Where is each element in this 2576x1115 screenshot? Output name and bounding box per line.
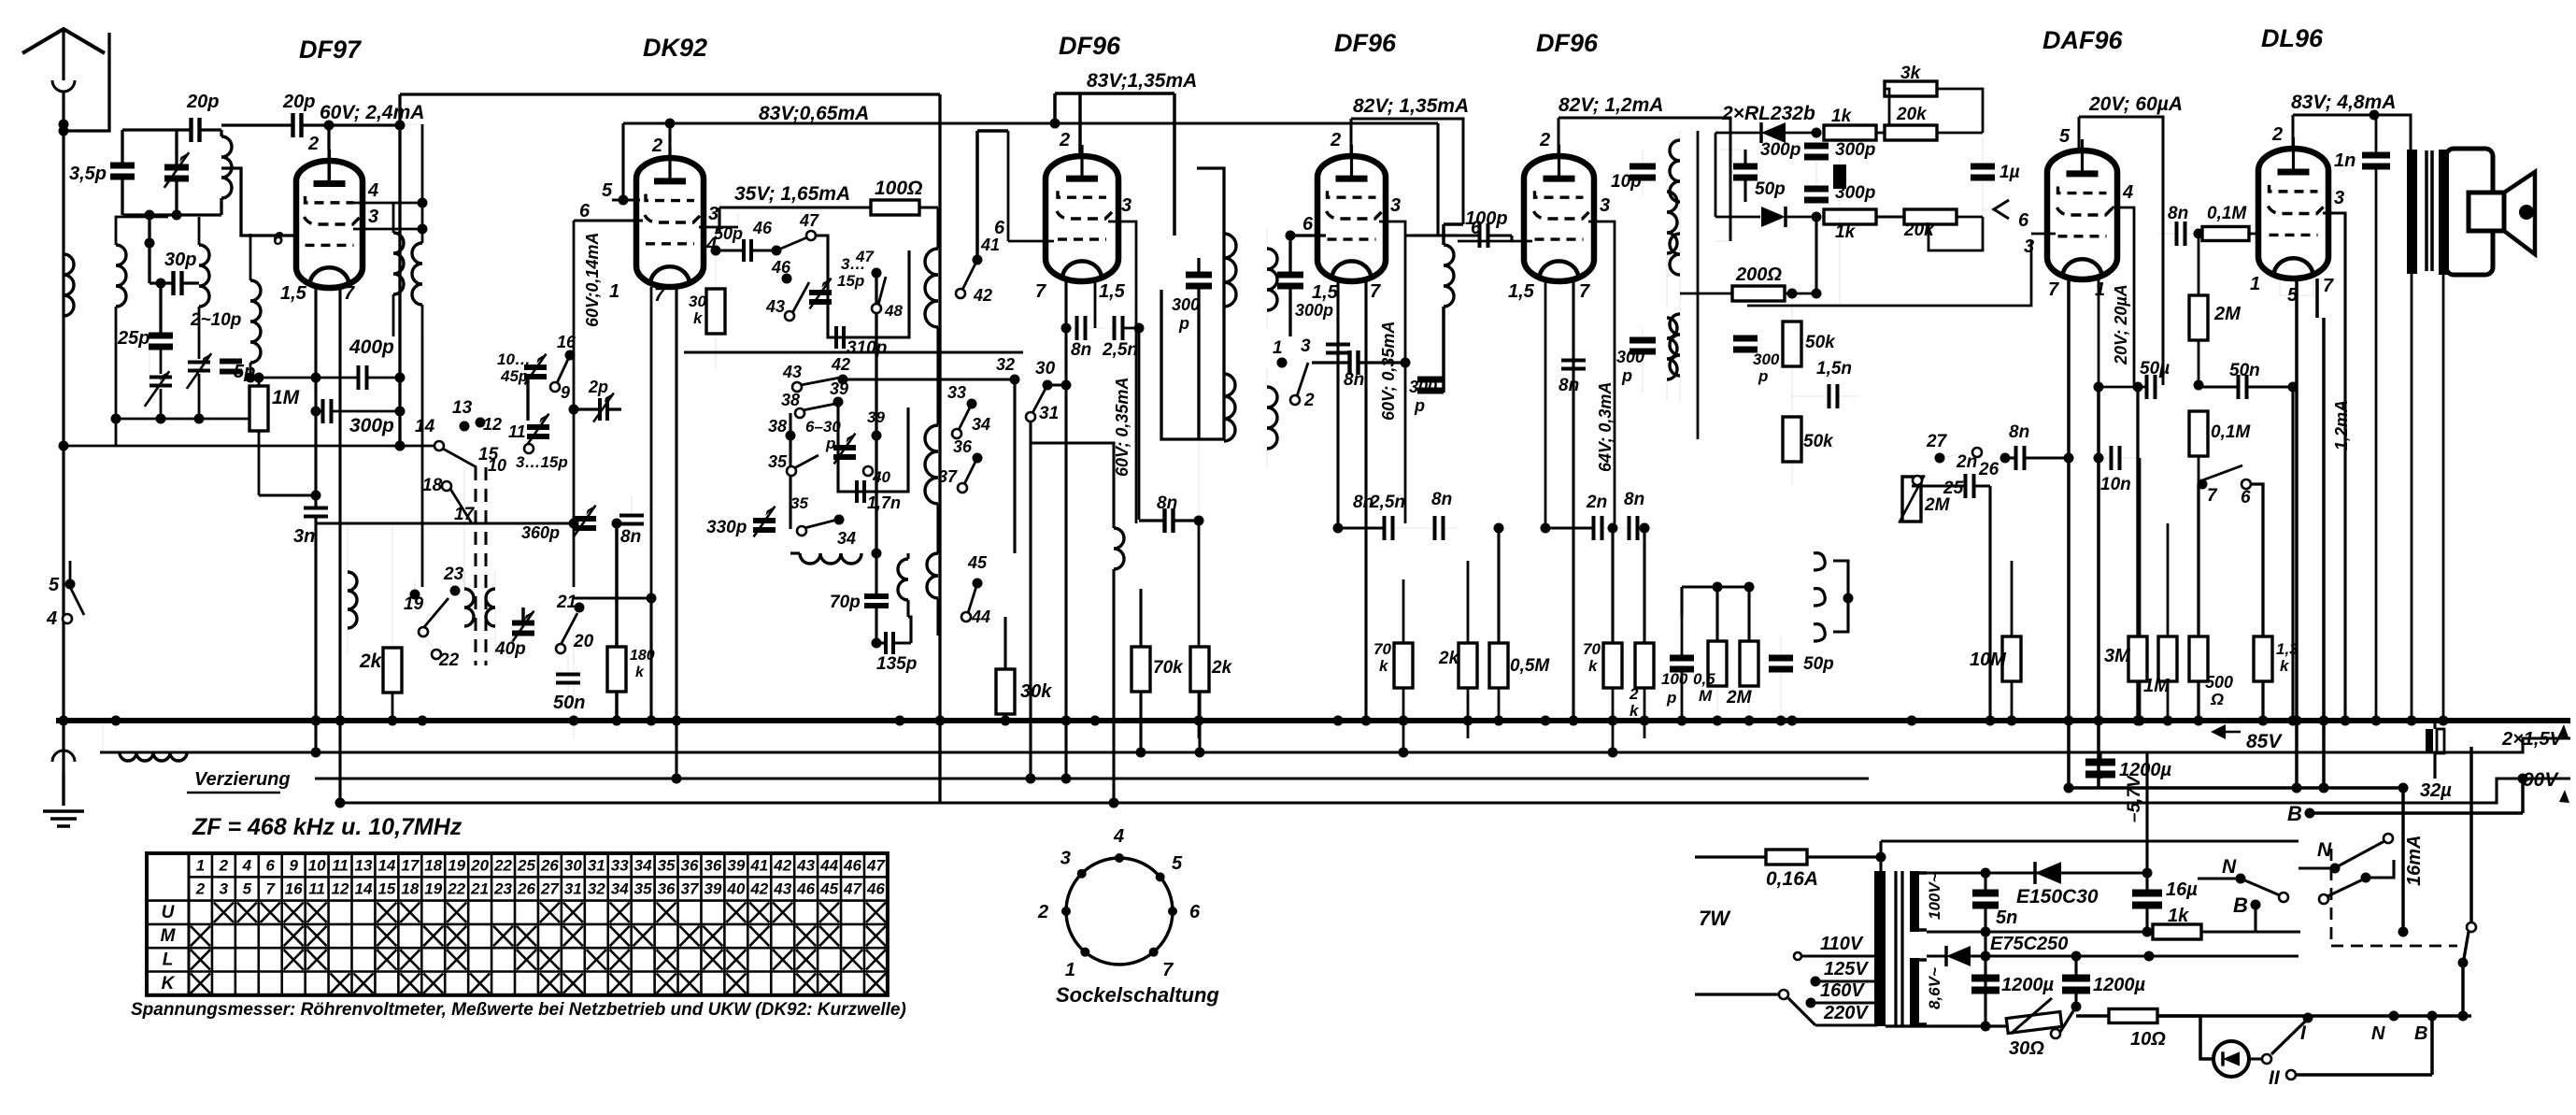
- potentiometer 2M: [1902, 477, 1921, 522]
- wire 1604 top: [1497, 528, 1500, 643]
- svg-text:2n: 2n: [1956, 452, 1977, 472]
- svg-text:20V; 20µA: 20V; 20µA: [2112, 284, 2130, 365]
- svg-text:Spannungsmesser: Röhrenvoltmet: Spannungsmesser: Röhrenvoltmeter, Meßwer…: [131, 1000, 906, 1020]
- bus 2: [102, 721, 104, 752]
- svg-text:36: 36: [704, 856, 721, 874]
- coil L2: [393, 233, 404, 294]
- det out arrow: [1928, 217, 1983, 250]
- capacitor 5n ps: [1972, 890, 1999, 897]
- grid wire 5p: [249, 366, 251, 378]
- diode E150C30: [2035, 862, 2061, 884]
- svg-text:22: 22: [447, 880, 465, 898]
- speaker magnet: [2469, 193, 2504, 231]
- det coil 3: [1670, 314, 1680, 376]
- svg-text:4: 4: [46, 608, 57, 629]
- svg-text:B: B: [2287, 802, 2302, 825]
- junction: [226, 124, 292, 130]
- det coil 1: [1670, 140, 1680, 202]
- resistor 70k b: [1394, 643, 1413, 688]
- svg-text:1200µ: 1200µ: [2001, 975, 2054, 995]
- svg-text:4: 4: [367, 180, 378, 201]
- svg-text:20V; 60µA: 20V; 60µA: [2088, 93, 2183, 115]
- wire sw47 to box: [815, 236, 828, 250]
- svg-text:4: 4: [1113, 826, 1124, 847]
- capacitor 1u: [1971, 164, 1995, 170]
- svg-text:36: 36: [658, 880, 676, 898]
- resistor 10ohm: [2075, 1007, 2077, 1016]
- svg-text:20k: 20k: [1896, 105, 1928, 124]
- svg-text:14: 14: [415, 417, 435, 436]
- svg-text:k: k: [693, 309, 704, 327]
- svg-text:17: 17: [401, 856, 420, 874]
- svg-text:0,5: 0,5: [1693, 670, 1715, 688]
- coil b out: [1444, 245, 1454, 307]
- svg-text:42: 42: [749, 880, 768, 898]
- svg-text:M: M: [1699, 687, 1713, 705]
- coil tank1: [221, 136, 232, 198]
- svg-text:41: 41: [749, 856, 768, 874]
- transformer core: [2425, 150, 2428, 271]
- svg-text:k: k: [1379, 657, 1389, 675]
- svg-text:12: 12: [483, 415, 502, 434]
- svg-text:2: 2: [2271, 124, 2283, 145]
- svg-text:33: 33: [611, 856, 629, 874]
- svg-text:6: 6: [994, 218, 1005, 238]
- svg-text:2M: 2M: [2213, 304, 2242, 324]
- coil ab3: [1267, 387, 1277, 449]
- capacitor 1200u a: [1971, 975, 2000, 982]
- svg-text:2k: 2k: [359, 650, 383, 672]
- svg-text:300p: 300p: [1835, 183, 1875, 203]
- svg-text:7: 7: [266, 880, 277, 898]
- svg-text:34: 34: [837, 529, 856, 548]
- svg-text:2: 2: [1539, 130, 1550, 150]
- resistor 50k b: [1783, 417, 1801, 462]
- resistor 2k a: [1190, 647, 1209, 692]
- svg-text:64V; 0,3mA: 64V; 0,3mA: [1596, 382, 1615, 472]
- feed DAF96: [2078, 117, 2081, 150]
- svg-text:500: 500: [2205, 673, 2233, 692]
- svg-text:12: 12: [332, 880, 349, 898]
- svg-text:k: k: [1588, 657, 1599, 675]
- capacitor 135p: [884, 632, 888, 654]
- svg-text:21: 21: [470, 880, 489, 898]
- svg-text:N: N: [2222, 856, 2237, 878]
- resistor 1M: [249, 386, 268, 431]
- svg-text:11: 11: [332, 856, 349, 874]
- svg-text:37: 37: [938, 467, 958, 486]
- svg-text:27: 27: [540, 880, 560, 898]
- svg-text:5: 5: [602, 180, 613, 201]
- svg-text:43: 43: [782, 363, 802, 381]
- svg-text:36: 36: [681, 856, 699, 874]
- svg-text:50n: 50n: [2229, 361, 2260, 380]
- svg-text:3: 3: [1600, 195, 1610, 216]
- svg-text:k: k: [635, 665, 645, 680]
- wire row 477: [64, 445, 439, 448]
- wire grid row DF96a: [1007, 131, 1009, 241]
- svg-text:4: 4: [2122, 182, 2133, 203]
- feed DL96: [2292, 115, 2295, 149]
- wire grid junction: [250, 377, 316, 379]
- wire 25p: [115, 383, 118, 419]
- svg-text:46: 46: [771, 258, 791, 277]
- svg-text:10n: 10n: [2100, 475, 2131, 494]
- resistor 2M dl: [2189, 295, 2208, 340]
- svg-text:15p: 15p: [837, 272, 864, 290]
- svg-text:330p: 330p: [706, 518, 747, 537]
- wire 2353 down: [2197, 484, 2199, 721]
- IF1 coil: [1224, 234, 1236, 307]
- svg-text:83V;0,65mA: 83V;0,65mA: [759, 103, 869, 124]
- svg-text:310p: 310p: [847, 338, 887, 358]
- svg-text:47: 47: [855, 248, 875, 265]
- svg-text:14: 14: [355, 880, 373, 898]
- svg-text:39: 39: [867, 408, 885, 426]
- svg-text:26: 26: [540, 856, 559, 874]
- svg-text:B: B: [2414, 1023, 2427, 1044]
- svg-text:E75C250: E75C250: [1990, 934, 2068, 954]
- svg-text:30: 30: [564, 856, 582, 874]
- svg-text:83V; 4,8mA: 83V; 4,8mA: [2291, 92, 2396, 113]
- svg-text:0,5M: 0,5M: [1510, 656, 1550, 676]
- wire right col: [2461, 965, 2465, 1016]
- coil L7: [348, 572, 357, 628]
- svg-text:7: 7: [1579, 281, 1590, 302]
- coil osc big mid: [925, 425, 938, 504]
- svg-text:6: 6: [266, 856, 276, 874]
- trimmer 6-30p: [833, 445, 856, 450]
- switch 7-6 dl: [2198, 479, 2208, 490]
- wire det af: [1839, 217, 1841, 306]
- coil L9: [486, 589, 495, 626]
- wire row 406: [792, 382, 802, 392]
- resistor 05M c: [1708, 641, 1727, 686]
- svg-text:35V; 1,65mA: 35V; 1,65mA: [734, 183, 850, 205]
- svg-text:8n: 8n: [1431, 490, 1452, 509]
- resistor 180k: [607, 647, 626, 692]
- svg-text:1,5: 1,5: [1508, 281, 1535, 302]
- svg-text:14: 14: [377, 856, 395, 874]
- svg-text:18: 18: [422, 476, 443, 495]
- svg-text:200Ω: 200Ω: [1735, 264, 1782, 285]
- svg-text:43: 43: [765, 297, 785, 316]
- wire top right corner: [1982, 89, 1984, 133]
- svg-text:125V: 125V: [1824, 959, 1869, 979]
- mains selector: [1695, 993, 1778, 995]
- svg-text:50p: 50p: [1755, 179, 1786, 199]
- svg-text:18: 18: [424, 856, 442, 874]
- svg-text:30p: 30p: [164, 250, 196, 270]
- coil ab2: [1267, 249, 1277, 310]
- wire pin7 down: [338, 286, 341, 803]
- wire det feed: [1715, 240, 1730, 242]
- svg-text:40: 40: [872, 468, 890, 486]
- svg-text:22: 22: [438, 650, 460, 670]
- svg-text:44: 44: [819, 856, 838, 874]
- svg-text:100: 100: [1661, 670, 1688, 688]
- switch 41-42: [975, 131, 979, 258]
- tube DF96a: [1046, 156, 1118, 281]
- bus 3: [315, 778, 1869, 780]
- svg-text:6–30: 6–30: [805, 418, 841, 436]
- svg-text:DF96: DF96: [1334, 29, 1397, 57]
- svg-text:60V;0,14mA: 60V;0,14mA: [583, 233, 602, 327]
- wire IF2 tops: [1443, 223, 1445, 225]
- wire bottom tank2: [116, 418, 250, 421]
- svg-text:82V; 1,2mA: 82V; 1,2mA: [1558, 94, 1663, 116]
- Sockelschaltung: [1066, 858, 1173, 965]
- svg-text:2p: 2p: [588, 378, 608, 396]
- svg-text:1n: 1n: [2334, 150, 2355, 171]
- tube DAF96: [2047, 150, 2117, 279]
- svg-text:3…15p: 3…15p: [516, 453, 568, 471]
- svg-text:70: 70: [1373, 640, 1391, 658]
- node join: [145, 238, 155, 249]
- svg-text:31: 31: [564, 880, 582, 898]
- wire DL96 pin7 down: [2315, 279, 2319, 318]
- svg-text:60V; 0,35mA: 60V; 0,35mA: [1113, 378, 1131, 477]
- resistor 1M b: [2158, 636, 2177, 681]
- svg-text:0,16A: 0,16A: [1766, 868, 1818, 890]
- svg-text:2,5n: 2,5n: [1102, 340, 1138, 360]
- transformer core: [1894, 871, 1897, 1026]
- svg-text:20k: 20k: [1903, 221, 1935, 240]
- trimmer 3-15p: [809, 290, 832, 295]
- capacitor 310p: [834, 326, 838, 349]
- svg-text:6: 6: [2241, 488, 2251, 507]
- svg-text:36: 36: [953, 437, 973, 456]
- wire DK92 col: [675, 617, 677, 779]
- bus 4: [345, 802, 1116, 805]
- svg-text:3: 3: [368, 207, 378, 227]
- switch 19-23: [419, 627, 428, 636]
- svg-text:100V~: 100V~: [1926, 873, 1943, 920]
- svg-text:8n: 8n: [1344, 370, 1364, 390]
- svg-text:L: L: [163, 951, 174, 970]
- transformer primary bar: [1874, 871, 1886, 1026]
- resistor 70k c: [1603, 643, 1622, 688]
- bus main: [56, 718, 2570, 723]
- svg-text:3,5p: 3,5p: [69, 164, 107, 184]
- svg-text:300: 300: [1616, 348, 1644, 366]
- switch 46-47: [776, 237, 807, 250]
- wire 1M-3n: [259, 493, 316, 496]
- svg-text:1M: 1M: [272, 387, 300, 408]
- tube DK92: [636, 158, 704, 287]
- trimmer left: [149, 376, 172, 379]
- svg-text:300: 300: [1409, 378, 1437, 396]
- svg-text:47: 47: [866, 856, 886, 874]
- svg-text:47: 47: [843, 880, 862, 898]
- coil L6: [250, 280, 261, 363]
- svg-text:8n: 8n: [1624, 490, 1644, 509]
- wire 1219 down: [1138, 328, 1141, 520]
- trimmer 2-10p: [188, 361, 210, 365]
- switch I: [2271, 1021, 2306, 1054]
- svg-text:45: 45: [967, 553, 988, 572]
- svg-text:2k: 2k: [1211, 658, 1233, 678]
- svg-text:5n: 5n: [1996, 908, 2017, 928]
- svg-text:27: 27: [1926, 432, 1948, 451]
- svg-text:8n: 8n: [1558, 376, 1579, 395]
- svg-text:34: 34: [634, 856, 652, 874]
- svg-text:7: 7: [2323, 276, 2334, 296]
- svg-text:DF96: DF96: [1059, 32, 1121, 60]
- svg-text:E150C30: E150C30: [2016, 886, 2099, 908]
- fuse 0,16A: [1695, 855, 1766, 858]
- svg-text:9: 9: [289, 856, 298, 874]
- dashed link: [2330, 849, 2333, 946]
- svg-text:41: 41: [980, 236, 1000, 254]
- svg-text:48: 48: [884, 302, 903, 320]
- svg-text:p: p: [825, 435, 835, 452]
- resistor 3M: [2128, 636, 2147, 681]
- svg-text:60V; 0,35mA: 60V; 0,35mA: [1379, 322, 1398, 421]
- svg-text:10: 10: [308, 856, 326, 874]
- resistor 2k: [383, 648, 402, 693]
- svg-text:70p: 70p: [830, 593, 861, 612]
- wire mid col 1539: [1437, 235, 1439, 236]
- coil Verzierung: [120, 752, 187, 761]
- wire sec1 top: [1927, 871, 2147, 874]
- svg-text:1: 1: [609, 281, 619, 302]
- box DL96 pins: [2280, 280, 2313, 295]
- svg-text:DF96: DF96: [1536, 29, 1599, 57]
- svg-text:Sockelschaltung: Sockelschaltung: [1056, 983, 1219, 1007]
- svg-text:N: N: [2317, 839, 2332, 861]
- svg-text:25p: 25p: [117, 328, 149, 349]
- wire antenna down: [62, 124, 64, 806]
- svg-text:39: 39: [704, 880, 721, 898]
- svg-text:160V: 160V: [1820, 980, 1865, 1001]
- bus junctions: [111, 716, 121, 726]
- wire DK92 pin7 down: [675, 287, 677, 617]
- resistor 13k: [2254, 636, 2272, 681]
- wire sw30: [1047, 383, 1066, 386]
- svg-text:0,1M: 0,1M: [2211, 422, 2251, 442]
- coil ab1: [1258, 290, 1260, 322]
- speaker frame: [2446, 149, 2493, 275]
- switch 38-39: [795, 408, 804, 418]
- capacitor 1200u b: [2062, 975, 2090, 982]
- wire det left: [1715, 133, 1717, 217]
- node 38b: [786, 431, 796, 441]
- capacitor 16u: [2132, 890, 2162, 897]
- svg-text:p: p: [1621, 366, 1632, 385]
- diode D2: [1761, 207, 1786, 227]
- svg-text:17: 17: [454, 505, 476, 524]
- svg-text:2M: 2M: [1924, 495, 1951, 515]
- svg-text:7: 7: [1035, 281, 1046, 302]
- wire 0,35 col: [1031, 421, 1114, 528]
- tank2 frame: [116, 217, 168, 224]
- wire IF1 down: [1198, 439, 1200, 521]
- frame c: [1697, 131, 1700, 439]
- det coil 2: [1670, 234, 1680, 275]
- svg-text:1200µ: 1200µ: [2119, 760, 2171, 780]
- svg-text:300p: 300p: [1760, 140, 1800, 160]
- svg-text:6: 6: [579, 201, 591, 222]
- svg-text:1: 1: [1065, 960, 1075, 980]
- svg-text:16mA: 16mA: [2404, 836, 2425, 886]
- trafo sec 86V: [1910, 958, 1919, 1026]
- svg-text:85V: 85V: [2246, 731, 2283, 752]
- ground connector: [52, 750, 75, 762]
- svg-text:35: 35: [790, 494, 808, 512]
- svg-text:ZF = 468 kHz u. 10,7MHz: ZF = 468 kHz u. 10,7MHz: [192, 814, 463, 840]
- svg-text:2,5n: 2,5n: [1369, 493, 1405, 512]
- capacitor 300p d1: [1804, 143, 1829, 150]
- wire 1726 mid: [1611, 528, 1614, 643]
- svg-text:32: 32: [996, 355, 1015, 374]
- wire mains top: [1881, 839, 2298, 842]
- svg-text:1k: 1k: [1831, 107, 1853, 126]
- capacitor 300p d2: [1833, 164, 1846, 189]
- svg-text:N: N: [2371, 1023, 2385, 1044]
- switch right: [2467, 922, 2476, 932]
- resistor 01M v: [2189, 411, 2208, 456]
- resistor 20k dn: [1904, 209, 1957, 224]
- resistor 05M b: [1489, 643, 1508, 688]
- svg-text:7: 7: [654, 285, 665, 306]
- svg-text:1: 1: [196, 856, 205, 874]
- coil L5: [199, 245, 209, 307]
- wire 3,5p: [122, 213, 221, 216]
- svg-text:–5,7V: –5,7V: [2125, 775, 2144, 822]
- svg-text:7: 7: [1162, 960, 1174, 980]
- svg-text:1,2mA: 1,2mA: [2332, 400, 2351, 450]
- switch 46b-43: [782, 274, 792, 284]
- svg-text:8,6V~: 8,6V~: [1926, 967, 1943, 1009]
- svg-text:7: 7: [1370, 281, 1381, 302]
- wire 2246 down: [2097, 387, 2100, 788]
- svg-text:5: 5: [49, 575, 60, 595]
- feed line 1,35mA: [1055, 92, 1174, 95]
- resistor 30k DK92: [706, 289, 725, 334]
- svg-text:30Ω: 30Ω: [2009, 1038, 2044, 1059]
- svg-text:11: 11: [508, 422, 526, 441]
- svg-text:50p: 50p: [714, 224, 743, 243]
- svg-text:1,5: 1,5: [1099, 281, 1126, 302]
- wire DAF96 pin7 down: [2067, 279, 2071, 788]
- wire DF96a pin7 down: [1064, 279, 1067, 779]
- svg-text:20: 20: [573, 632, 594, 651]
- svg-text:50k: 50k: [1803, 432, 1834, 451]
- filament rail: [2069, 786, 2403, 790]
- svg-text:1,3: 1,3: [2276, 640, 2298, 658]
- wire DK92 left: [573, 221, 576, 587]
- wire DAF96 pin1 down: [2098, 279, 2100, 385]
- table Wellenschalter: [147, 853, 888, 995]
- svg-text:p: p: [1414, 396, 1425, 415]
- tube DL96: [2258, 149, 2328, 279]
- svg-text:2M: 2M: [1726, 688, 1753, 708]
- capacitor 1,7n: [855, 480, 859, 503]
- tube DF97: [296, 161, 363, 288]
- wire 428 down: [398, 125, 401, 378]
- coil c1: [1667, 192, 1677, 253]
- node 5 wire: [69, 561, 72, 584]
- svg-text:DF97: DF97: [299, 36, 363, 64]
- svg-text:7W: 7W: [1699, 907, 1731, 930]
- capacitor 300p b: [1277, 272, 1303, 279]
- svg-text:30k: 30k: [1020, 681, 1052, 702]
- svg-text:2×RL232b: 2×RL232b: [1721, 103, 1815, 124]
- svg-text:k: k: [2280, 657, 2290, 675]
- wire osc bottom: [574, 596, 651, 599]
- svg-text:25: 25: [517, 856, 535, 874]
